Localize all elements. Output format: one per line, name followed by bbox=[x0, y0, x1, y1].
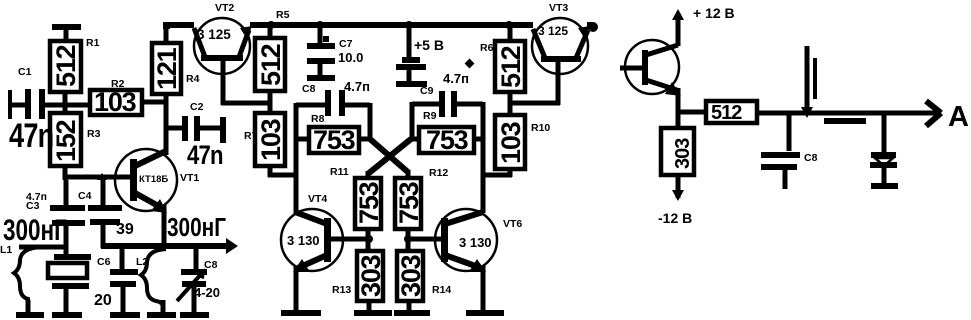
svg-text:-12 В: -12 В bbox=[658, 210, 692, 226]
svg-text:47n: 47n bbox=[9, 116, 53, 155]
svg-text:R7: R7 bbox=[244, 130, 258, 142]
svg-text:C8: C8 bbox=[804, 152, 818, 164]
svg-text:4.7п: 4.7п bbox=[344, 79, 370, 94]
svg-text:512: 512 bbox=[51, 45, 81, 87]
svg-text:R14: R14 bbox=[432, 284, 451, 296]
svg-text:R8: R8 bbox=[311, 113, 325, 125]
svg-text:512: 512 bbox=[496, 46, 526, 88]
svg-text:753: 753 bbox=[354, 181, 384, 224]
svg-text:L1: L1 bbox=[0, 244, 12, 256]
svg-text:R12: R12 bbox=[429, 167, 448, 179]
svg-text:VT2: VT2 bbox=[215, 2, 234, 14]
svg-text:121: 121 bbox=[152, 47, 182, 90]
svg-text:303: 303 bbox=[396, 254, 426, 297]
svg-text:+ 12 В: + 12 В bbox=[693, 5, 735, 21]
svg-text:3 130: 3 130 bbox=[459, 235, 492, 250]
svg-text:4.7п: 4.7п bbox=[443, 71, 469, 86]
svg-text:3 130: 3 130 bbox=[287, 233, 320, 248]
svg-text:А: А bbox=[948, 101, 969, 133]
svg-text:4-20: 4-20 bbox=[194, 285, 220, 300]
svg-text:753: 753 bbox=[313, 125, 356, 155]
svg-text:303: 303 bbox=[356, 254, 386, 297]
svg-text:C3: C3 bbox=[26, 200, 40, 212]
svg-text:20: 20 bbox=[94, 292, 112, 309]
svg-text:152: 152 bbox=[51, 120, 81, 162]
svg-text:103: 103 bbox=[496, 121, 526, 164]
svg-text:R10: R10 bbox=[531, 122, 550, 134]
svg-text:512: 512 bbox=[256, 44, 286, 86]
svg-text:VT6: VT6 bbox=[503, 218, 522, 230]
svg-text:C9: C9 bbox=[420, 85, 434, 97]
svg-text:R2: R2 bbox=[111, 78, 125, 90]
svg-text:C8: C8 bbox=[302, 83, 316, 95]
svg-text:753: 753 bbox=[426, 125, 469, 155]
svg-text:10.0: 10.0 bbox=[338, 50, 363, 65]
svg-text:C2: C2 bbox=[190, 101, 204, 113]
svg-text:VT4: VT4 bbox=[308, 193, 327, 205]
svg-text:303: 303 bbox=[672, 138, 694, 169]
svg-text:R11: R11 bbox=[330, 166, 349, 178]
svg-text:47n: 47n bbox=[187, 141, 223, 171]
svg-text:R3: R3 bbox=[87, 128, 101, 140]
svg-text:+5 В: +5 В bbox=[414, 37, 444, 53]
svg-text:C1: C1 bbox=[18, 66, 32, 78]
svg-text:300нГ: 300нГ bbox=[3, 213, 67, 247]
svg-text:R1: R1 bbox=[86, 37, 100, 49]
svg-text:103: 103 bbox=[94, 87, 137, 117]
svg-text:39: 39 bbox=[116, 221, 134, 238]
svg-text:C8: C8 bbox=[204, 259, 218, 271]
svg-text:R4: R4 bbox=[186, 73, 200, 85]
svg-text:3 125: 3 125 bbox=[197, 27, 231, 42]
svg-text:C6: C6 bbox=[97, 256, 111, 268]
svg-text:512: 512 bbox=[711, 102, 742, 124]
svg-text:КТ18Б: КТ18Б bbox=[139, 174, 168, 185]
svg-text:R13: R13 bbox=[332, 284, 351, 296]
svg-text:3 125: 3 125 bbox=[538, 24, 568, 38]
svg-text:VT1: VT1 bbox=[180, 172, 199, 184]
svg-text:VT3: VT3 bbox=[549, 2, 568, 14]
svg-text:103: 103 bbox=[256, 118, 286, 161]
svg-text:R9: R9 bbox=[423, 110, 437, 122]
svg-text:L2: L2 bbox=[136, 256, 148, 268]
svg-text:R5: R5 bbox=[276, 9, 290, 21]
svg-text:300нГ: 300нГ bbox=[167, 213, 226, 242]
svg-text:R6: R6 bbox=[480, 42, 494, 54]
svg-text:C4: C4 bbox=[78, 190, 92, 202]
svg-text:753: 753 bbox=[394, 181, 424, 224]
svg-text:C7: C7 bbox=[339, 38, 353, 50]
